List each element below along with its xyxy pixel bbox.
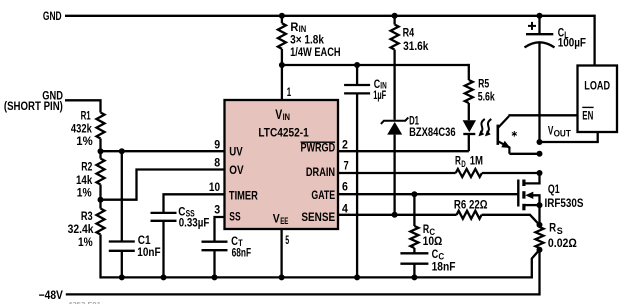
svg-text:S: S xyxy=(557,226,563,236)
svg-text:31.6k: 31.6k xyxy=(403,39,429,53)
svg-text:LTC4252-1: LTC4252-1 xyxy=(258,125,309,139)
svg-text:32.4k: 32.4k xyxy=(68,222,94,236)
U1 title LTC4252-1 xyxy=(258,125,309,139)
svg-text:−48V: −48V xyxy=(39,288,63,302)
svg-text:DRAIN: DRAIN xyxy=(306,165,335,179)
node C1-rail xyxy=(119,274,125,280)
wire -48V riser to RS xyxy=(538,250,540,296)
svg-text:68nF: 68nF xyxy=(232,246,252,260)
node emitter-VOUT xyxy=(537,151,543,157)
svg-text:EE: EE xyxy=(280,216,288,226)
RS value label xyxy=(548,221,577,250)
svg-text:1M: 1M xyxy=(470,154,483,168)
CT value label xyxy=(231,234,251,260)
capacitor CC xyxy=(400,248,428,277)
wire GND top rail xyxy=(65,15,595,17)
wire LOAD bottom pin xyxy=(540,132,598,142)
svg-text:V: V xyxy=(548,123,554,137)
wire LOAD feed drop xyxy=(593,15,595,66)
Q1 label xyxy=(545,182,584,210)
-48V label xyxy=(39,288,63,302)
capacitor CT xyxy=(202,242,228,251)
svg-text:100µF: 100µF xyxy=(558,35,586,49)
U1 SENSE pin label xyxy=(301,210,335,224)
svg-text:BZX84C36: BZX84C36 xyxy=(409,125,456,139)
node CC-rail xyxy=(411,274,417,280)
svg-text:IN: IN xyxy=(283,112,290,122)
svg-text:1: 1 xyxy=(287,85,292,99)
wire OV route xyxy=(101,170,225,200)
CC value label xyxy=(432,247,456,273)
svg-text:V: V xyxy=(275,106,282,122)
wire SS route xyxy=(215,217,225,242)
wire RD to drain col xyxy=(482,172,540,174)
node CL top xyxy=(537,13,543,19)
wire VEE bottom rail xyxy=(101,276,532,278)
wire PWRGD row xyxy=(338,150,469,152)
svg-text:GND: GND xyxy=(43,9,62,23)
node R2-R3-OV xyxy=(98,197,104,203)
wire R2 to node xyxy=(99,185,101,200)
pin 7 number xyxy=(344,158,349,172)
node VEE-rail xyxy=(279,274,285,280)
svg-text:GATE: GATE xyxy=(311,188,335,202)
svg-text:(SHORT PIN): (SHORT PIN) xyxy=(4,99,63,113)
node VIN-RIN xyxy=(279,62,285,68)
svg-text:8: 8 xyxy=(214,156,220,170)
R2 value label xyxy=(76,160,93,200)
CSS value label xyxy=(178,204,209,229)
svg-text:R5: R5 xyxy=(478,76,489,90)
node VIN-CIN xyxy=(354,62,360,68)
wire -48V rail xyxy=(66,293,540,295)
wire TIMER route xyxy=(164,194,225,213)
wire R6 to RS xyxy=(482,215,540,225)
wire DRAIN lead xyxy=(338,172,456,174)
resistor RC xyxy=(410,194,418,248)
resistor R5 xyxy=(465,64,473,103)
svg-text:D: D xyxy=(461,159,466,169)
svg-text:5: 5 xyxy=(285,233,289,247)
transistor Q1 IRF530S xyxy=(518,173,542,225)
svg-text:1µF: 1µF xyxy=(373,88,386,102)
resistor RD xyxy=(456,169,482,177)
svg-text:R: R xyxy=(549,221,556,235)
wire VIN rail xyxy=(282,64,469,66)
wire SENSE lead xyxy=(338,214,457,216)
svg-text:Q1: Q1 xyxy=(548,182,560,196)
node RD-drain xyxy=(537,170,543,176)
svg-text:5.6k: 5.6k xyxy=(478,90,495,104)
wire C1 to rail xyxy=(121,251,123,278)
svg-text:UV: UV xyxy=(229,144,242,158)
VOUT label xyxy=(548,123,571,138)
U1 VIN pin label xyxy=(275,106,290,122)
node RS bottom xyxy=(537,247,543,253)
R1 value label xyxy=(71,108,93,147)
GND (short pin) label xyxy=(4,89,63,113)
svg-text:7: 7 xyxy=(344,158,349,172)
node R4 top xyxy=(392,13,398,19)
wire pin1 stub xyxy=(281,65,283,100)
svg-text:R2: R2 xyxy=(81,160,92,174)
pin 8 number xyxy=(214,156,220,170)
svg-text:SS: SS xyxy=(229,210,240,224)
U1 OV pin label xyxy=(229,163,243,177)
svg-text:1/4W EACH: 1/4W EACH xyxy=(290,45,341,59)
node CT-rail xyxy=(212,274,218,280)
wire UV row xyxy=(101,150,225,152)
resistor R4 xyxy=(391,16,399,50)
svg-text:10nF: 10nF xyxy=(137,245,160,259)
capacitor CIN xyxy=(344,65,370,277)
svg-text:2: 2 xyxy=(342,137,348,151)
svg-text:∗: ∗ xyxy=(511,129,518,139)
wire EN row xyxy=(508,114,577,116)
node D1-SENSE xyxy=(392,212,398,218)
svg-text:4: 4 xyxy=(342,201,348,215)
GND label xyxy=(43,9,62,23)
wire R4 to D1 xyxy=(393,50,395,120)
svg-text:V: V xyxy=(273,211,280,225)
RIN value label xyxy=(290,20,341,59)
svg-text:0.33µF: 0.33µF xyxy=(179,215,210,229)
opto light arrows xyxy=(478,119,491,136)
U1 VEE pin label xyxy=(273,211,289,226)
figure number xyxy=(68,302,101,304)
U1 TIMER pin label xyxy=(229,189,258,203)
R3 value label xyxy=(68,209,94,249)
resistor R2 xyxy=(97,151,105,184)
svg-text:R: R xyxy=(455,154,461,168)
capacitor C1 xyxy=(109,242,135,251)
pin 5 number xyxy=(285,233,289,247)
svg-text:10Ω: 10Ω xyxy=(423,234,443,248)
svg-text:1%: 1% xyxy=(76,134,93,148)
EN label xyxy=(582,107,593,122)
CL value label xyxy=(558,25,586,49)
transistor opto NPN xyxy=(498,116,518,154)
resistor RIN xyxy=(278,16,286,65)
wire C1 column xyxy=(121,151,123,241)
CIN value label xyxy=(373,77,386,102)
resistor R1 xyxy=(97,113,105,139)
U1 DRAIN pin label xyxy=(306,165,335,179)
svg-text:EN: EN xyxy=(582,108,593,122)
svg-text:LOAD: LOAD xyxy=(584,78,610,92)
wire pin5 VEE stub xyxy=(280,229,282,277)
svg-text:9: 9 xyxy=(214,137,220,151)
op-amp U1 LTC4252-1 body xyxy=(225,100,339,229)
D1 value label xyxy=(409,113,456,138)
pin 10 number xyxy=(209,180,220,194)
node GATE-RC xyxy=(411,191,417,197)
wire CSS to rail xyxy=(162,221,164,278)
svg-text:R6 22Ω: R6 22Ω xyxy=(454,198,488,212)
wire CT to rail xyxy=(213,250,215,277)
R5 value label xyxy=(478,76,495,103)
svg-text:R3: R3 xyxy=(81,209,93,223)
RC value label xyxy=(423,222,443,248)
wire kelvin bend xyxy=(532,250,540,279)
svg-text:OUT: OUT xyxy=(554,128,572,138)
LOAD label xyxy=(584,78,610,92)
svg-text:10: 10 xyxy=(209,180,220,194)
capacitor CL xyxy=(525,16,555,142)
wire short-pin entry xyxy=(65,100,101,112)
RD value label xyxy=(455,154,483,169)
wire R3 to rail xyxy=(99,235,101,279)
pin 9 number xyxy=(214,137,220,151)
U1 UV pin label xyxy=(229,144,242,158)
LOAD box xyxy=(578,66,618,133)
node CIN-rail xyxy=(354,274,360,280)
svg-text:0.02Ω: 0.02Ω xyxy=(548,236,577,250)
C1 value label xyxy=(137,233,160,259)
diode D1 BZX84C36 xyxy=(381,118,408,215)
wire R1 to UV xyxy=(99,139,101,152)
wire emitter to VOUT col xyxy=(509,153,539,155)
node CSS-rail xyxy=(161,274,167,280)
R6 value label xyxy=(454,198,488,212)
resistor R3 xyxy=(97,200,105,235)
U1 SS pin label xyxy=(229,210,240,224)
pin 2 number xyxy=(342,137,348,151)
svg-text:6: 6 xyxy=(342,179,348,193)
pin 3 number xyxy=(214,203,220,217)
svg-text:18nF: 18nF xyxy=(432,260,456,274)
pin 6 number xyxy=(342,179,348,193)
svg-text:1%: 1% xyxy=(77,186,92,200)
svg-text:IRF530S: IRF530S xyxy=(545,196,584,210)
U1 GATE pin label xyxy=(311,188,335,202)
node UV-R1 xyxy=(98,148,104,154)
wire GATE row xyxy=(338,193,518,195)
svg-text:R1: R1 xyxy=(81,108,91,122)
node UV-C1 xyxy=(119,148,125,154)
svg-text:1%: 1% xyxy=(78,235,93,249)
node RIN top xyxy=(279,13,285,19)
pin 4 number xyxy=(342,201,348,215)
pin 1 number xyxy=(287,85,292,99)
svg-text:TIMER: TIMER xyxy=(229,189,258,203)
node VOUT xyxy=(537,139,543,145)
resistor RS xyxy=(536,227,544,248)
svg-text:R4: R4 xyxy=(403,25,415,39)
capacitor CSS xyxy=(151,213,177,221)
node RS top xyxy=(537,222,543,228)
U1 PWRGD pin label xyxy=(301,140,336,154)
svg-text:OV: OV xyxy=(229,163,243,177)
svg-text:3: 3 xyxy=(214,203,220,217)
R4 value label xyxy=(403,25,429,52)
opto LED xyxy=(463,103,476,151)
resistor R6 xyxy=(457,211,482,219)
svg-text:SENSE: SENSE xyxy=(301,210,335,224)
